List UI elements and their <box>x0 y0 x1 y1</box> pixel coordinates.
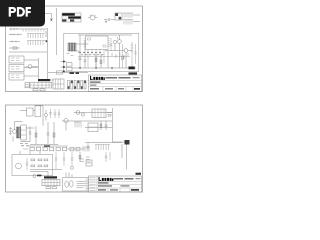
wire net VCC <box>9 51 47 53</box>
logo brand 2 <box>99 177 114 181</box>
resistor R6 <box>95 54 97 68</box>
wire w2b bottom rail <box>72 67 136 69</box>
title block TB2 <box>89 176 142 192</box>
connector J2 row <box>9 34 22 36</box>
IC U5 pins right <box>108 39 110 47</box>
wire w9 <box>85 127 113 129</box>
wire bus D <box>112 108 114 142</box>
resistor R14 <box>38 159 42 161</box>
filter box B2 <box>35 106 41 117</box>
bracket to badge area <box>45 14 53 19</box>
capacitor bank C6 <box>68 81 70 90</box>
doc number bar 2 <box>114 178 124 179</box>
footer cells 1 <box>103 87 133 92</box>
relay RL1 cell 2 <box>119 17 122 20</box>
component row under U5 <box>79 53 103 55</box>
connector J1 row of pins <box>9 28 47 30</box>
revision table <box>89 176 98 192</box>
wire bus C <box>38 58 40 79</box>
wire w7c <box>30 144 58 146</box>
resistor R16 <box>79 152 81 162</box>
small block U8 <box>86 160 92 166</box>
comb RN3 <box>82 147 90 152</box>
wire w7 <box>12 128 34 142</box>
inductor L1 <box>57 71 63 74</box>
wire bus A <box>47 28 49 80</box>
capacitor C17 <box>47 122 50 144</box>
resistor R15 <box>44 159 48 161</box>
dash marks DM1 <box>80 159 84 161</box>
IC U6 block <box>92 109 106 118</box>
capacitor C3 <box>79 40 82 68</box>
capacitor C15b <box>58 109 61 118</box>
capacitor C24 <box>105 152 110 162</box>
footer cells 2 <box>108 188 130 192</box>
transistor Q4 <box>124 49 128 53</box>
wire w7a <box>15 122 23 130</box>
transformer T3 <box>17 127 21 138</box>
wire w12 <box>20 151 40 155</box>
IC U5 pins left <box>84 39 86 47</box>
connector CN4 <box>67 67 73 71</box>
diode array D2 comb <box>27 41 45 46</box>
transistor Q10 <box>45 114 48 117</box>
diode row D10 <box>63 147 67 151</box>
capacitor C2 <box>104 18 112 21</box>
logo brand 1 <box>90 76 105 80</box>
junction dot jd3 <box>63 71 65 73</box>
PDF badge letter P <box>9 7 16 17</box>
resistor R1 <box>9 41 20 43</box>
diode array D4 comb <box>74 122 81 128</box>
revision entries <box>90 178 96 191</box>
amplifier block AMP1 <box>12 155 53 176</box>
resistor R9 <box>35 126 37 144</box>
note text lines <box>77 182 86 188</box>
diode row D9 <box>56 147 60 151</box>
wire w8 upper rails <box>62 113 112 122</box>
label LBL6 bar <box>44 176 57 178</box>
capacitor C14 <box>49 109 52 118</box>
capacitor C19 <box>87 143 90 151</box>
transistor Q7 <box>81 113 84 116</box>
capacitor bank C10 <box>81 81 83 90</box>
model text 1 <box>90 82 101 83</box>
wire stub d1 <box>24 60 38 76</box>
connector CN7 table <box>42 179 60 185</box>
capacitor C16 <box>29 126 32 142</box>
diode row D8 <box>50 147 54 151</box>
connector CN1 table <box>30 82 52 88</box>
page 2 sheet border <box>6 105 143 192</box>
label LBL2 <box>70 72 75 74</box>
junction dot jd2 <box>63 66 65 68</box>
junction dots rail <box>79 67 80 68</box>
resistor R4 marks <box>11 67 20 70</box>
connector CN2 small <box>25 83 29 88</box>
resistor R17 <box>122 44 124 68</box>
transistor Q9 <box>71 166 74 169</box>
diode row D6 <box>37 147 41 151</box>
capacitor C5 <box>110 38 113 51</box>
wire w2 top rail <box>76 35 132 44</box>
capacitor C20 <box>26 158 29 170</box>
pin header P2 comb <box>123 20 133 25</box>
pin list cells <box>86 179 89 191</box>
wire w3 mid rail <box>105 51 124 69</box>
motor M1 <box>90 15 95 20</box>
resistor R12 <box>100 121 102 130</box>
label LBL4 <box>44 145 50 147</box>
pin header P1 comb <box>123 13 133 18</box>
vertical taps under U5 <box>88 49 104 68</box>
jumper JP1 <box>33 89 38 91</box>
connector CN3 <box>67 63 73 67</box>
IC U7 block <box>88 123 98 132</box>
capacitor C22 <box>63 152 66 166</box>
transistor Q5 <box>64 118 68 122</box>
diode array D1 comb <box>27 34 45 39</box>
resistor R5 marks <box>11 75 20 78</box>
output header P3 <box>131 42 134 68</box>
transistor Q3 <box>118 40 122 44</box>
resistor stubs RS1 <box>20 144 29 146</box>
wire w1 <box>112 15 140 22</box>
transistor Q8 <box>33 175 36 178</box>
wire link w15 <box>50 79 53 81</box>
junction dot jd1 <box>63 61 65 63</box>
capacitor bank C11 <box>84 81 86 90</box>
box pair BP1 <box>70 148 74 151</box>
diode row D5 <box>30 147 34 151</box>
PDF badge <box>0 0 45 27</box>
label LBL1 <box>38 79 50 81</box>
connector CN5 <box>53 79 64 89</box>
PDF badge letter D <box>17 7 25 17</box>
wire w16 lower rail <box>78 56 130 58</box>
node dot K2 <box>105 21 106 22</box>
marks inside U5 <box>88 38 91 40</box>
bridge BR1 block <box>21 125 26 140</box>
IC U3 block <box>9 65 24 72</box>
diode row D7 <box>43 147 47 151</box>
resistor comb RN2 <box>95 145 110 151</box>
resistor R13 <box>31 159 35 161</box>
label LBL5 <box>37 175 42 177</box>
rev text 1 <box>90 85 97 86</box>
IC U2 block <box>9 56 24 63</box>
capacitor bank C9 <box>77 81 79 90</box>
resistor marks RM1 <box>86 157 91 162</box>
power supply block PS1 <box>64 33 139 71</box>
resistor R2 <box>9 47 20 49</box>
capacitor C4 <box>84 40 87 68</box>
label LBL3 <box>76 72 80 74</box>
input stubs <box>9 127 12 135</box>
wire stubs w14 <box>66 173 72 178</box>
transistor Q2 <box>113 40 116 43</box>
PDF badge letter F <box>26 7 31 17</box>
speaker SP1 <box>65 181 69 187</box>
wire w10 <box>85 142 122 144</box>
IC U4 block <box>9 73 24 80</box>
relay RL1 block <box>115 13 122 20</box>
IC U5 main block <box>86 36 109 49</box>
fuse label F1 <box>129 67 135 70</box>
page 1 sheet border <box>6 6 143 92</box>
wire w13 rails <box>30 170 62 177</box>
speaker SP2 <box>70 181 74 187</box>
resistor network RN1 <box>23 29 44 32</box>
model text 2 <box>98 182 109 183</box>
capacitor C21 <box>55 152 58 170</box>
right column comps <box>134 44 137 64</box>
pot VR1 <box>16 163 22 169</box>
node dot K1 <box>46 40 48 42</box>
tick marks tm1 <box>112 53 128 60</box>
transistor Q6 <box>76 111 80 115</box>
doc number bar 1 <box>106 77 118 78</box>
capacitor C15 <box>54 109 57 118</box>
bridge box B1 <box>27 108 34 116</box>
title block TB1 <box>89 75 142 92</box>
label LBL7 <box>136 173 142 175</box>
transistor Q1 <box>28 65 32 69</box>
signal table T1 <box>62 13 81 22</box>
resistor R11 <box>107 112 112 114</box>
varistor RV1 <box>13 130 17 134</box>
dash marks under T2 <box>67 54 74 56</box>
resistor R7 <box>100 54 102 68</box>
capacitor C23 <box>71 152 74 166</box>
junction stubs <box>61 62 67 68</box>
capacitor bank C8 <box>74 81 76 90</box>
wire w5 bottom link <box>48 72 88 74</box>
wire w11 <box>23 146 85 149</box>
capacitor C1 <box>45 32 47 36</box>
label LBL8 <box>129 72 138 74</box>
capacitor C18 <box>105 121 108 130</box>
speaker box SP <box>63 178 89 192</box>
wire w6 top rail <box>20 106 43 126</box>
resistor R3 marks <box>11 58 20 61</box>
relay RL2 <box>125 140 130 145</box>
jumper JP2 <box>46 187 51 189</box>
transformer T2 <box>68 43 76 51</box>
capacitor bank C7 <box>71 81 73 90</box>
resistor R10 <box>53 122 55 144</box>
wire bus B <box>56 8 58 55</box>
node tick <box>51 19 53 20</box>
